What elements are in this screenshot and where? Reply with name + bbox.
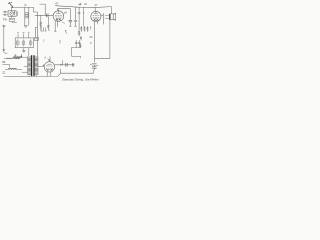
wire tube2 cathode drop xyxy=(94,22,96,63)
transformer T2 core xyxy=(31,56,33,76)
capacitor C10 xyxy=(29,40,32,47)
wire tube2 top lead xyxy=(94,7,96,11)
wire core bottoms xyxy=(29,75,36,76)
capacitor C2 xyxy=(3,11,7,13)
coil L2 xyxy=(13,56,22,59)
capacitor C12 xyxy=(72,63,73,66)
wire bottom rail xyxy=(4,73,61,76)
op-amp U2 tube 2 xyxy=(91,11,101,21)
op-amp U3 tube 3 xyxy=(44,62,54,72)
resistor R7 xyxy=(80,36,82,40)
wire stub xyxy=(59,40,61,43)
wire B+ rail xyxy=(55,6,111,8)
wire tube2 pins xyxy=(96,22,98,25)
wire step xyxy=(3,65,10,68)
wire grid line xyxy=(35,14,53,16)
wire shield bracket xyxy=(58,9,71,20)
wire bank stubs xyxy=(18,33,29,38)
resistor R9 grid leak xyxy=(47,17,49,30)
switch S1 xyxy=(9,18,14,21)
label x xyxy=(25,4,27,5)
wire tube2 plate to speaker xyxy=(101,13,103,24)
capacitor C5 xyxy=(69,21,72,22)
resistor R6 xyxy=(87,26,89,31)
capacitor C9 xyxy=(22,40,25,47)
coupling arc xyxy=(16,12,19,16)
variable capacitor C1 xyxy=(10,12,14,16)
capacitor C13 stack xyxy=(92,64,96,70)
speaker SP1 xyxy=(109,14,111,20)
label 24 xyxy=(64,12,66,14)
wire top rail left xyxy=(11,6,33,8)
wire cap bus xyxy=(72,47,81,58)
wire tube1 pins xyxy=(54,21,57,31)
resistor R4 xyxy=(81,26,83,31)
resistor R2 xyxy=(34,37,38,40)
capacitor C6 xyxy=(74,7,77,26)
transformer primary winding xyxy=(28,57,31,74)
wire cap drop xyxy=(62,60,64,64)
resistor R5 xyxy=(84,26,86,31)
transformer secondary winding xyxy=(35,57,38,74)
resistor R8 xyxy=(80,44,82,48)
svg-text:Standard Swing, Ute Reflex: Standard Swing, Ute Reflex xyxy=(62,78,99,82)
wire ground return xyxy=(61,69,94,73)
capacitor C8 xyxy=(16,40,19,47)
capacitor C14 xyxy=(78,40,80,47)
capacitor C11 xyxy=(66,63,67,66)
wire pair to bank xyxy=(35,12,37,57)
coil L1 xyxy=(24,7,26,25)
node junction A xyxy=(12,6,13,7)
wire output line xyxy=(55,64,74,66)
label ticks row xyxy=(41,28,46,32)
grid cap lead xyxy=(40,4,46,15)
wire transformer leads xyxy=(22,57,28,72)
wire speaker return xyxy=(95,20,110,59)
svg-text:A: A xyxy=(43,56,46,60)
wire screen feed xyxy=(83,7,85,26)
ground xyxy=(22,48,25,52)
svg-text:47: 47 xyxy=(55,1,58,5)
coil L3 xyxy=(6,57,12,60)
capacitor C4 xyxy=(47,14,49,17)
resistor R3 xyxy=(78,7,80,36)
wire tube3 top lead xyxy=(49,57,51,62)
wire left drop xyxy=(3,25,5,52)
label TRF xyxy=(3,19,7,21)
coil L4 xyxy=(8,67,16,70)
wire box feed xyxy=(11,7,13,10)
switch contacts xyxy=(2,61,5,62)
tuning box T1 xyxy=(8,11,16,17)
capacitor C3 xyxy=(3,14,7,16)
resistor R1 xyxy=(40,15,42,29)
antenna xyxy=(8,2,12,7)
node B+ tick xyxy=(79,3,81,5)
wire corner down xyxy=(34,7,38,12)
wire tube1 top lead xyxy=(58,9,60,11)
wire tube3 pins xyxy=(47,72,51,77)
ground xyxy=(24,26,28,28)
op-amp U1 tube 1 xyxy=(53,11,64,22)
capacitor C7 xyxy=(75,40,77,47)
capacitor bank box xyxy=(15,38,33,48)
